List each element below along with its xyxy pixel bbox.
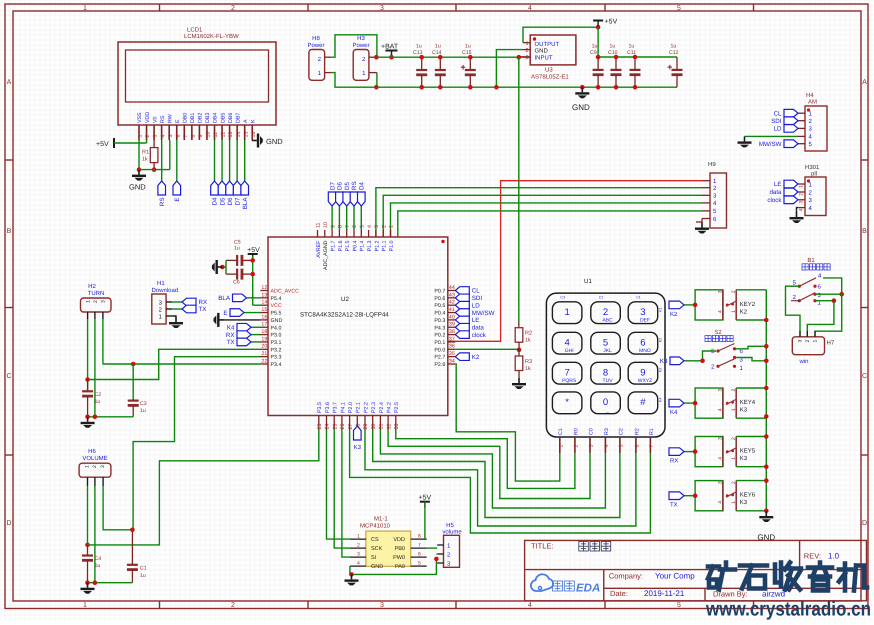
svg-text:E: E — [174, 198, 181, 202]
svg-text:1: 1 — [83, 5, 87, 12]
net flag LD — [774, 125, 798, 133]
svg-text:14: 14 — [261, 300, 267, 306]
svg-text:K4: K4 — [670, 409, 678, 416]
svg-text:CL: CL — [472, 288, 480, 295]
svg-text:22: 22 — [261, 358, 267, 364]
svg-text:1u: 1u — [435, 44, 441, 50]
wire P3.2 net — [88, 349, 261, 379]
svg-text:4: 4 — [718, 408, 724, 411]
svg-text:36: 36 — [449, 344, 455, 350]
svg-text:P3.5: P3.5 — [317, 402, 323, 413]
svg-text:H9: H9 — [708, 161, 716, 168]
svg-text:15: 15 — [261, 307, 267, 313]
svg-text:P4.2: P4.2 — [387, 402, 393, 413]
net flag LE — [774, 180, 798, 188]
svg-text:29: 29 — [363, 424, 369, 430]
svg-text:P1.7: P1.7 — [331, 240, 337, 251]
svg-text:9: 9 — [198, 135, 204, 138]
svg-text:EDA: EDA — [576, 583, 600, 595]
capacitor C4 1u — [82, 546, 93, 583]
svg-text:30: 30 — [371, 424, 377, 430]
svg-text:C6: C6 — [233, 280, 240, 286]
svg-text:P3.3: P3.3 — [271, 355, 282, 361]
wire +BAT rail — [376, 56, 530, 58]
net flag RS — [161, 140, 163, 181]
wire — [424, 502, 426, 539]
svg-text:R0: R0 — [573, 428, 579, 435]
svg-text:15: 15 — [243, 132, 249, 138]
svg-text:PQRS: PQRS — [562, 378, 577, 384]
net flags D7 D6 D5 RS D4 above U2 — [331, 206, 333, 230]
svg-text:16: 16 — [251, 132, 257, 138]
svg-text:P1.0: P1.0 — [389, 240, 395, 251]
svg-text:C2: C2 — [599, 296, 604, 300]
svg-text:DB7: DB7 — [235, 113, 241, 123]
svg-text:MNO: MNO — [639, 348, 651, 354]
svg-text:K2: K2 — [740, 308, 748, 315]
svg-text:8: 8 — [418, 534, 421, 540]
svg-text:2: 2 — [93, 300, 99, 303]
svg-text:K3: K3 — [740, 499, 748, 506]
svg-text:21: 21 — [261, 351, 267, 357]
wire cap rail — [598, 56, 677, 58]
svg-text:D5: D5 — [219, 197, 226, 205]
svg-text:7: 7 — [565, 367, 570, 378]
LCD U-LCD1 module — [118, 42, 276, 125]
svg-text:P2.0: P2.0 — [348, 402, 354, 413]
U2 bottom pins — [318, 416, 320, 431]
svg-text:1u: 1u — [140, 408, 146, 414]
svg-text:C0: C0 — [588, 428, 594, 435]
svg-text:K2: K2 — [659, 338, 663, 342]
svg-text:4: 4 — [528, 602, 532, 609]
svg-text:1.0: 1.0 — [828, 552, 840, 561]
capacitor C6 1u — [226, 269, 253, 280]
net flag E — [244, 312, 261, 314]
svg-text:TX: TX — [199, 306, 207, 313]
svg-text:_: _ — [605, 407, 609, 413]
svg-text:SI: SI — [371, 555, 377, 561]
svg-text:AM: AM — [808, 99, 817, 106]
svg-text:1u: 1u — [671, 44, 677, 50]
svg-text:H4: H4 — [806, 92, 814, 99]
svg-text:B: B — [7, 228, 12, 235]
net flag TX at H1 — [172, 308, 182, 310]
svg-text:P3.0: P3.0 — [271, 333, 282, 339]
svg-text:24: 24 — [325, 424, 331, 430]
svg-text:C12: C12 — [669, 50, 679, 56]
wire gnd rail — [376, 86, 677, 88]
svg-text:BLA: BLA — [242, 197, 249, 210]
svg-text:1u: 1u — [95, 563, 101, 569]
svg-text:MW/SW: MW/SW — [472, 310, 495, 317]
svg-text:data: data — [769, 189, 782, 196]
svg-text:U2: U2 — [341, 296, 349, 303]
svg-text:DB6: DB6 — [228, 113, 234, 123]
svg-text:3: 3 — [101, 300, 107, 303]
svg-text:C: C — [6, 373, 11, 380]
svg-text:35: 35 — [449, 351, 455, 357]
wire P3.4 net — [103, 363, 261, 365]
svg-text:LE: LE — [472, 317, 480, 324]
svg-text:P1.3: P1.3 — [367, 240, 373, 251]
svg-text:Download: Download — [152, 287, 179, 294]
wire P3.7 to MCP SCK — [334, 430, 350, 548]
svg-text:0: 0 — [603, 397, 608, 408]
svg-text:4: 4 — [718, 457, 724, 460]
svg-text:1: 1 — [357, 534, 360, 540]
svg-text:C13: C13 — [413, 50, 423, 56]
svg-text:ADC_AVCC: ADC_AVCC — [271, 289, 300, 295]
svg-text:R2: R2 — [525, 331, 532, 337]
svg-text:OUTPUT: OUTPUT — [535, 41, 560, 48]
svg-text:4: 4 — [357, 561, 360, 567]
svg-text:DB1: DB1 — [190, 113, 196, 123]
svg-text:38: 38 — [449, 329, 455, 335]
svg-text:PB0: PB0 — [395, 546, 405, 552]
svg-text:B: B — [862, 228, 867, 235]
svg-text:A: A — [7, 79, 12, 86]
LCEDA logo — [531, 574, 553, 591]
svg-text:1: 1 — [813, 340, 819, 343]
svg-text:P0.0: P0.0 — [434, 347, 445, 353]
svg-text:2: 2 — [231, 5, 235, 12]
svg-text:18: 18 — [261, 329, 267, 335]
wire — [597, 27, 599, 57]
svg-text:Power: Power — [307, 42, 324, 49]
svg-text:RS: RS — [351, 181, 358, 190]
svg-text:C3: C3 — [140, 401, 147, 407]
svg-text:P4.3: P4.3 — [434, 325, 445, 331]
svg-text:2: 2 — [145, 135, 151, 138]
wire — [114, 142, 147, 144]
svg-text:1k: 1k — [525, 366, 531, 372]
svg-text:16: 16 — [261, 314, 267, 320]
svg-text:MCP41010: MCP41010 — [360, 523, 391, 530]
svg-text:K3: K3 — [659, 368, 663, 372]
svg-text:3: 3 — [718, 290, 724, 293]
svg-text:13: 13 — [261, 292, 267, 298]
svg-text:P2.3: P2.3 — [371, 402, 377, 413]
svg-text:win: win — [798, 358, 808, 365]
svg-text:10: 10 — [323, 222, 329, 228]
power flag +5V at U2 — [247, 247, 260, 258]
wire H301 pin4 gnd — [797, 208, 799, 212]
svg-text:2: 2 — [603, 307, 608, 318]
svg-text:4: 4 — [604, 445, 610, 448]
svg-text:LD: LD — [774, 126, 782, 133]
svg-text:K3: K3 — [740, 455, 748, 462]
svg-text:K2: K2 — [472, 354, 480, 361]
title block — [525, 540, 867, 600]
svg-text:3: 3 — [374, 225, 380, 228]
svg-text:1: 1 — [731, 457, 737, 460]
svg-text:LE: LE — [774, 181, 782, 188]
capacitor C2 1u — [82, 380, 93, 417]
svg-text:TX: TX — [670, 502, 678, 509]
svg-text:9: 9 — [640, 367, 645, 378]
svg-text:CL: CL — [774, 110, 782, 117]
svg-text:14: 14 — [236, 132, 242, 138]
svg-text:2: 2 — [731, 481, 737, 484]
U2 right pins — [448, 290, 456, 292]
svg-text:1u: 1u — [416, 44, 422, 50]
svg-text:D7: D7 — [329, 182, 336, 190]
svg-text:E: E — [175, 119, 181, 123]
ground main rail — [580, 85, 585, 90]
net flag TX — [251, 341, 261, 343]
svg-text:P1.5: P1.5 — [345, 240, 351, 251]
svg-text:9: 9 — [330, 225, 336, 228]
svg-text:Company:: Company: — [609, 572, 643, 581]
wire — [138, 140, 140, 170]
svg-text:1: 1 — [558, 445, 564, 448]
wire P0.0 to divider — [455, 348, 519, 350]
svg-text:12: 12 — [261, 285, 267, 291]
svg-text:10: 10 — [206, 132, 212, 138]
wire P3.6 to MCP CS — [327, 430, 350, 539]
net flag MW/SW — [759, 140, 798, 148]
ground at LCD pin16 — [251, 140, 253, 141]
wire H6 pin2 — [94, 486, 96, 583]
svg-text:2: 2 — [92, 465, 98, 468]
svg-text:VCC: VCC — [271, 303, 282, 309]
wire — [435, 553, 438, 555]
svg-text:SCK: SCK — [371, 546, 383, 552]
svg-text:P3.7: P3.7 — [333, 402, 339, 413]
svg-text:2: 2 — [799, 193, 805, 196]
wire U3 out to +5V — [523, 27, 598, 43]
svg-text:R1: R1 — [142, 150, 149, 156]
svg-text:5: 5 — [677, 602, 681, 609]
svg-text:P0.7: P0.7 — [434, 289, 445, 295]
wire — [139, 169, 170, 171]
resistor R1 1k — [153, 140, 155, 148]
svg-text:P2.4: P2.4 — [379, 402, 385, 413]
svg-text:H1: H1 — [157, 280, 165, 287]
svg-text:clock: clock — [472, 332, 487, 339]
svg-text:S2: S2 — [714, 329, 722, 336]
svg-text:D7: D7 — [234, 197, 241, 205]
svg-text:K3: K3 — [740, 407, 748, 414]
svg-text:P4.1: P4.1 — [340, 402, 346, 413]
svg-text:5: 5 — [603, 337, 608, 348]
power flag +5V — [593, 19, 617, 27]
net flag K3 — [684, 351, 716, 361]
ground at LCD — [132, 170, 146, 181]
U2 left pins — [261, 290, 269, 292]
svg-text:1: 1 — [86, 300, 92, 303]
power flag +BAT — [391, 51, 393, 58]
svg-text:M1-1: M1-1 — [374, 516, 388, 523]
wire H2 pin3 — [102, 319, 104, 364]
svg-text:VDD: VDD — [393, 537, 405, 543]
svg-text:1u: 1u — [140, 573, 146, 579]
net flag CL — [774, 109, 798, 117]
ground at H9 — [695, 223, 709, 234]
wire P3.3 net — [133, 357, 260, 530]
svg-text:P2.6: P2.6 — [434, 362, 445, 368]
svg-text:K4: K4 — [227, 324, 235, 331]
svg-text:1: 1 — [731, 501, 737, 504]
net flag K3 under U2 — [356, 426, 358, 430]
net flags CL SDI LD MW/SW LE data clock on U2 — [455, 287, 480, 295]
pushbutton KEY5 — [695, 437, 723, 467]
svg-text:1: 1 — [731, 408, 737, 411]
wire U3 gnd — [496, 50, 522, 88]
svg-text:7: 7 — [418, 543, 421, 549]
svg-text:P5.5: P5.5 — [271, 311, 282, 317]
svg-text:P0.5: P0.5 — [434, 303, 445, 309]
svg-text:H6: H6 — [88, 448, 96, 455]
resistor R3 1k — [518, 350, 520, 356]
svg-text:1: 1 — [799, 185, 805, 188]
wire — [252, 256, 254, 305]
svg-text:MW/SW: MW/SW — [759, 141, 782, 148]
wire H9 pin1 red to U2 P0.1 — [448, 181, 702, 342]
svg-text:3: 3 — [380, 602, 384, 609]
svg-text:GND: GND — [266, 137, 283, 146]
svg-text:6: 6 — [640, 337, 645, 348]
svg-text:D: D — [862, 520, 867, 527]
power flag +5V at MCP — [419, 495, 432, 508]
svg-text:PA0: PA0 — [395, 564, 405, 570]
svg-text:data: data — [472, 324, 485, 331]
svg-text:INPUT: INPUT — [535, 55, 553, 62]
net flag RX at H1 — [172, 301, 182, 303]
svg-text:VDD: VDD — [145, 112, 151, 123]
svg-text:5: 5 — [360, 225, 366, 228]
svg-text:KEY2: KEY2 — [740, 301, 756, 308]
svg-text:K3: K3 — [660, 358, 668, 365]
svg-text:GND: GND — [371, 564, 383, 570]
svg-text:E: E — [223, 310, 227, 317]
svg-text:GND: GND — [271, 318, 283, 324]
svg-text:8: 8 — [338, 225, 344, 228]
svg-text:32: 32 — [386, 424, 392, 430]
wire B1 pin4 — [823, 278, 842, 294]
svg-text:P0.4: P0.4 — [434, 311, 445, 317]
svg-text:DB3: DB3 — [205, 113, 211, 123]
svg-text:P1.4: P1.4 — [360, 240, 366, 251]
svg-text:C2: C2 — [95, 392, 102, 398]
svg-text:CS: CS — [371, 537, 379, 543]
svg-text:12: 12 — [221, 132, 227, 138]
svg-text:K: K — [250, 119, 256, 123]
IC U2 STC8A4K32S2A12-28I-LQFP44 — [268, 237, 448, 416]
net flag data — [769, 188, 798, 196]
svg-text:C14: C14 — [432, 50, 442, 56]
wire H9 pins2-5 to U2 P1.x — [376, 188, 702, 237]
ground at H1 — [172, 316, 176, 317]
svg-text:Power: Power — [352, 42, 369, 49]
svg-text:P2.1: P2.1 — [356, 402, 362, 413]
svg-text:K3: K3 — [354, 444, 362, 451]
svg-text:5: 5 — [418, 561, 421, 567]
svg-text:4: 4 — [718, 310, 724, 313]
svg-text:3: 3 — [640, 307, 645, 318]
svg-text:A: A — [862, 79, 867, 86]
svg-text:RS: RS — [159, 198, 166, 207]
svg-text:+5V: +5V — [247, 247, 260, 254]
svg-text:SDI: SDI — [771, 118, 782, 125]
ground at H301 — [790, 212, 804, 223]
svg-text:+5V: +5V — [96, 141, 109, 148]
svg-text:D6: D6 — [337, 182, 344, 190]
svg-text:3: 3 — [798, 340, 804, 343]
svg-text:H8: H8 — [312, 35, 320, 42]
svg-text:H7: H7 — [827, 340, 835, 347]
svg-text:TURN: TURN — [88, 290, 105, 297]
svg-text:C1: C1 — [636, 296, 641, 300]
svg-text:26: 26 — [340, 424, 346, 430]
svg-text:DB0: DB0 — [183, 113, 189, 123]
svg-text:P0.1: P0.1 — [434, 340, 445, 346]
svg-text:B1: B1 — [807, 257, 815, 264]
svg-text:KEY6: KEY6 — [740, 492, 756, 499]
svg-text:2: 2 — [357, 543, 360, 549]
ground at C5/C6 — [222, 266, 226, 268]
svg-text:P1.6: P1.6 — [338, 240, 344, 251]
svg-text:STC8A4K32S2A12-28I-LQFP44: STC8A4K32S2A12-28I-LQFP44 — [300, 312, 389, 319]
wire P3.5 staircase to H6 — [88, 430, 319, 545]
svg-text:P0.2: P0.2 — [434, 333, 445, 339]
svg-text:P5.4: P5.4 — [271, 296, 282, 302]
svg-text:VOLUME: VOLUME — [82, 455, 107, 462]
svg-text:ABC: ABC — [602, 317, 613, 323]
net flag RX — [684, 451, 695, 453]
svg-text:6: 6 — [635, 445, 641, 448]
svg-text:JKL: JKL — [603, 348, 612, 354]
svg-text:3: 3 — [525, 55, 528, 61]
svg-text:D: D — [6, 520, 11, 527]
svg-text:#: # — [640, 397, 646, 408]
svg-text:8: 8 — [603, 367, 608, 378]
net flag K2 on U2 P2.7 — [455, 353, 480, 361]
svg-text:1u: 1u — [629, 44, 635, 50]
svg-text:P2.5: P2.5 — [394, 402, 400, 413]
svg-text:3: 3 — [380, 5, 384, 12]
svg-text:P0.4: P0.4 — [352, 240, 358, 251]
svg-text:42: 42 — [449, 300, 455, 306]
svg-text:Your Comp: Your Comp — [655, 572, 695, 581]
svg-text:3: 3 — [100, 465, 106, 468]
svg-text:D5: D5 — [344, 182, 351, 190]
svg-text:17: 17 — [261, 322, 267, 328]
wire H4 pin4 to gnd — [745, 135, 799, 137]
svg-text:1: 1 — [138, 135, 144, 138]
wire MCP PB0 to H5 — [427, 547, 438, 549]
svg-text:31: 31 — [379, 424, 385, 430]
svg-text:R3: R3 — [604, 428, 610, 435]
svg-text:5: 5 — [168, 135, 174, 138]
connector H7 win — [792, 337, 824, 355]
svg-text:7: 7 — [183, 135, 189, 138]
svg-text:C9: C9 — [590, 50, 597, 56]
net flag BLA — [247, 297, 261, 299]
svg-text:C: C — [862, 373, 867, 380]
svg-text:clock: clock — [767, 197, 782, 204]
svg-text:ADC_AGND: ADC_AGND — [323, 240, 329, 270]
svg-text:1u: 1u — [234, 246, 240, 252]
svg-text:TITLE:: TITLE: — [531, 542, 554, 551]
svg-text:WXYZ: WXYZ — [638, 378, 652, 384]
svg-text:P3.6: P3.6 — [325, 402, 331, 413]
wire H6 pin1 — [87, 486, 89, 546]
net flag SDI — [771, 117, 798, 125]
svg-text:20: 20 — [261, 344, 267, 350]
svg-text:P2.7: P2.7 — [434, 355, 445, 361]
